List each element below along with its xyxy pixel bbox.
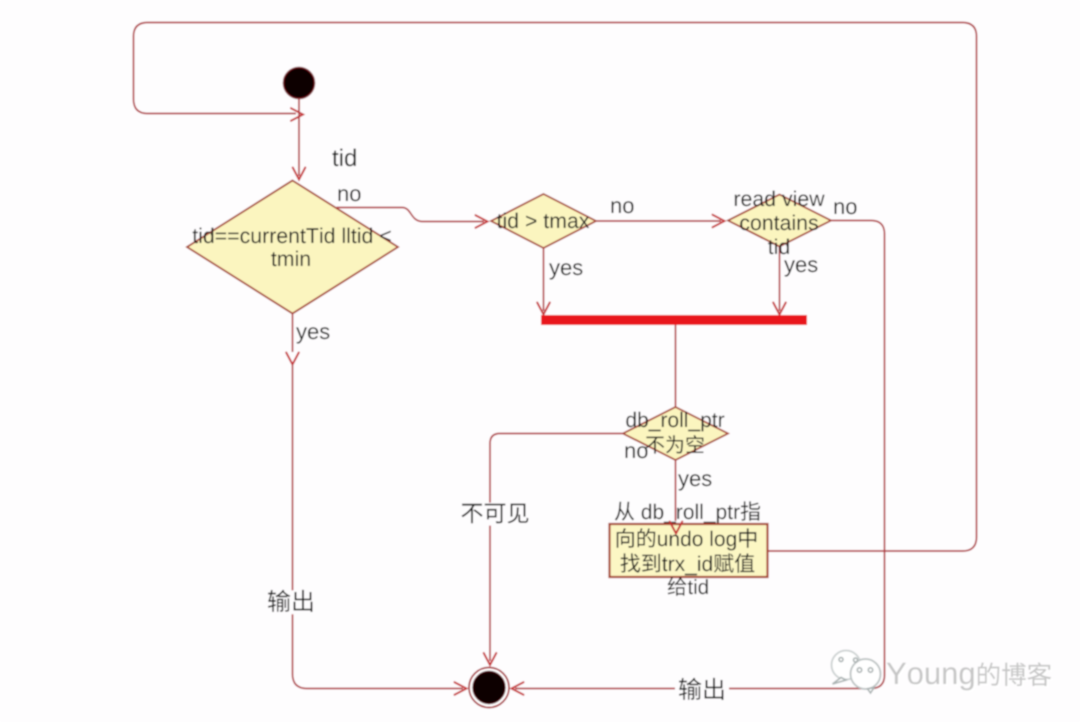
label D3 line2 <box>740 215 818 231</box>
label assign line1 <box>615 501 760 523</box>
wire left branch to end node <box>293 365 464 689</box>
wire D1 no to D2 <box>337 208 485 222</box>
arrowhead D1 yes merge <box>286 353 299 365</box>
watermark text Young blog <box>889 664 1054 692</box>
wire D1 yes down <box>292 314 294 353</box>
wire loop-back boundary <box>134 23 977 552</box>
decision D4 db_roll_ptr not null <box>623 407 728 460</box>
action box undo log assignment <box>610 524 768 577</box>
label yes 3 <box>784 260 817 276</box>
arrowhead D2 yes into bar <box>537 303 550 315</box>
label D4 line1 <box>626 412 724 432</box>
arrowhead into end node from top <box>484 653 497 665</box>
label no 2 <box>612 201 634 213</box>
wire D2 no to D3 <box>596 220 721 222</box>
label no 4 <box>626 446 648 458</box>
decision D2 tid > tmax <box>491 194 596 248</box>
arrowhead into end node from left <box>455 682 467 695</box>
arrowhead into decision D1 <box>293 168 306 180</box>
wire D3 yes to bar <box>779 247 781 312</box>
label assign line2 <box>617 528 756 550</box>
wire start to decision D1 <box>298 99 300 177</box>
wire bar to D4 <box>675 325 677 408</box>
label no 3 <box>835 202 857 214</box>
label D3 line1 <box>735 191 825 207</box>
synchronization bar <box>541 315 807 325</box>
label D2 text <box>497 213 589 229</box>
watermark chat icon <box>832 651 881 694</box>
label bukejian <box>458 503 533 526</box>
wire D3 no to end node <box>515 221 885 689</box>
label D4 line2 <box>646 435 704 454</box>
label shuchu left <box>264 590 318 614</box>
decision D3 read view contains tid <box>728 195 831 247</box>
start node (initial state) <box>284 68 315 99</box>
label D3 line3 tid <box>768 239 789 255</box>
wire D4 yes to box <box>675 460 677 521</box>
label tid <box>332 149 355 167</box>
arrowhead into D2 <box>476 215 488 228</box>
decision D1 tid==currentTid ||tid < tmin <box>187 181 398 314</box>
label shuchu right <box>675 678 729 702</box>
wire D2 yes to bar <box>543 248 545 311</box>
label assign line4 <box>668 577 708 596</box>
label D1 text line2 <box>271 251 310 267</box>
arrowhead into end node from right <box>512 682 524 695</box>
arrowhead loop-back into start stem <box>291 108 303 121</box>
arrowhead into box <box>670 522 683 534</box>
label yes 2 <box>549 263 582 279</box>
label yes 4 <box>678 474 711 490</box>
arrowhead into D3 <box>713 215 725 228</box>
label no 1 <box>339 189 361 201</box>
label assign line3 <box>621 553 755 575</box>
wire D4 no to end node <box>490 434 623 662</box>
label D1 text line1 <box>193 228 391 244</box>
end node (final state) <box>469 668 509 708</box>
arrowhead D3 yes into bar <box>773 303 786 315</box>
label yes 1 <box>296 327 329 343</box>
